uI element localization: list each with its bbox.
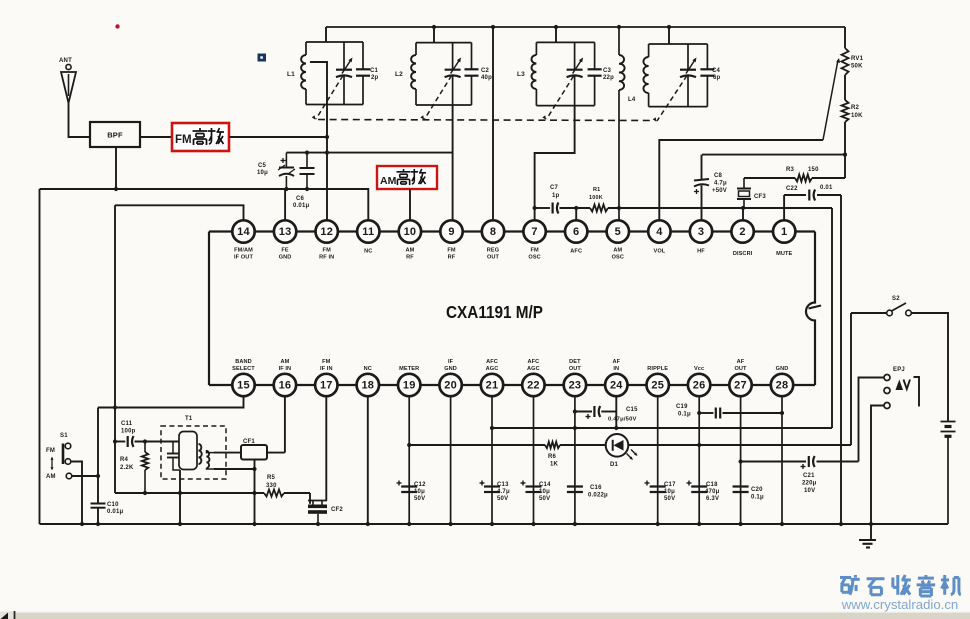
wire S2 right to battery [911,313,948,421]
capacitor C11 label [121,421,136,435]
filter CF2 [308,501,327,525]
svg-text:C20: C20 [751,487,763,493]
wire pin 22 vertical [533,397,535,525]
IC pin 5 (AM OSC) [607,220,629,260]
svg-text:C7: C7 [550,185,559,191]
svg-text:8: 8 [490,226,496,238]
svg-text:C5: C5 [258,163,267,169]
IC pin 1 (MUTE) [773,220,795,257]
capacitor C11 [128,436,134,447]
wire pin3/C8 rail [702,155,846,221]
LED D1 label [610,462,619,468]
svg-text:IF IN: IF IN [279,366,292,372]
svg-text:21: 21 [486,380,499,392]
capacitor C20 [733,487,749,493]
capacitor C22 [809,190,815,201]
svg-text:L2: L2 [395,71,403,78]
tuning gang dashed line [318,120,652,121]
resistor R1 [590,205,608,212]
svg-text:FM: FM [530,248,539,254]
wire antenna to BPF [69,103,91,137]
jack EPJ contacts [884,375,890,409]
svg-text:C6: C6 [296,196,305,202]
filter CF3 label [754,194,766,200]
capacitor C8 label [712,173,727,194]
capacitor C7 [553,203,559,214]
svg-text:GND: GND [279,255,292,261]
svg-text:NC: NC [364,249,372,255]
capacitor C8 [694,179,709,194]
wire top supply bus [326,26,845,28]
svg-text:6.3V: 6.3V [706,496,719,502]
svg-text:T1: T1 [185,416,193,422]
gang line diagonal C4 tank [653,76,687,122]
gang line diagonal L3 [542,76,573,120]
svg-text:22: 22 [527,380,540,392]
capacitor C2 label [481,68,492,81]
wire power rail to S2 [850,313,852,445]
wire left rail to pin 11 [40,189,369,221]
inductor L2 label [395,71,403,78]
svg-text:0.01: 0.01 [820,185,833,191]
potentiometer RV1 [842,27,849,100]
capacitor C6 label [293,196,309,209]
wire pin 17 to CF2 [325,397,327,501]
capacitor C20 label [751,487,764,501]
svg-text:15: 15 [237,380,250,392]
wire C5/C6 top rail [286,152,452,154]
svg-text:VOL: VOL [653,249,665,255]
svg-text:CF1: CF1 [243,439,255,445]
filter CF1 label [243,439,255,445]
svg-text:AF: AF [737,359,745,365]
svg-text:D1: D1 [610,462,619,468]
svg-text:6p: 6p [713,75,721,81]
svg-text:R2: R2 [851,105,860,111]
junction dot pin-12 line at C5/C6 rail [325,151,329,155]
resistor R4 [142,442,148,494]
horizontal scrollbar [0,611,970,619]
IC pin 3 (HF) [690,220,712,254]
wire C11 rail [115,441,179,443]
svg-text:0.1μ: 0.1μ [678,412,691,418]
svg-text:0.022μ: 0.022μ [588,493,608,499]
wire band select column / C10 branch [97,408,99,525]
junction dot power rail at pin 19 [407,443,411,447]
battery B1 [941,422,956,525]
junction dot FM amp wire [325,135,329,139]
svg-text:FM: FM [447,248,456,254]
IC pin 14 (FM/AM IF OUT) [232,220,254,260]
svg-text:150: 150 [808,167,819,173]
svg-text:S1: S1 [60,433,68,439]
capacitor C17 label [664,482,676,502]
svg-text:C16: C16 [590,485,602,491]
capacitor C10 label [107,502,123,515]
svg-text:AM: AM [380,175,397,187]
svg-text:9: 9 [448,226,454,238]
capacitor C21 [801,456,815,469]
resistor R2 label [851,105,863,119]
svg-text:MUTE: MUTE [776,251,792,257]
wire L2 varicap node to pin 9 [452,105,454,221]
IC pin 13 (FE GND) [274,220,296,260]
IC pin 22 (AFC AGC) [522,359,544,396]
svg-text:CF3: CF3 [754,194,766,200]
junction dot Vcc tap [697,443,701,447]
svg-text:10μ: 10μ [664,489,675,495]
svg-text:1p: 1p [552,193,560,199]
svg-text:4: 4 [656,226,663,238]
IC pin 12 (FM RF IN) [316,220,338,260]
capacitor C18 [687,481,708,493]
svg-text:6: 6 [573,226,579,238]
svg-text:C12: C12 [414,482,426,488]
wire FM OSC rail [535,208,832,428]
svg-text:AGC: AGC [486,366,499,372]
capacitor C5 [278,153,295,189]
svg-text:28: 28 [776,380,789,392]
capacitor C14 label [539,482,551,502]
svg-text:0.01μ: 0.01μ [293,203,309,209]
capacitor C13 [480,481,501,493]
IC pin 20 (IF GND) [439,359,461,396]
svg-text:27: 27 [734,380,747,392]
svg-text:OSC: OSC [612,255,624,261]
junction dot AM contact [96,474,100,478]
wire T1 bottom to bus [179,470,181,524]
svg-text:2: 2 [739,226,745,238]
tuned tank L1/C1 box [301,42,370,105]
wire pin 8 to top bus [492,27,494,221]
junction dots C19 rail [697,411,784,415]
svg-text:22p: 22p [603,75,614,81]
svg-text:FM: FM [323,248,332,254]
svg-text:2.2K: 2.2K [120,465,134,471]
junction dot C15 left [573,409,577,413]
junction dots lower rail [143,491,257,495]
filter CF1 [241,445,267,460]
svg-text:www.crystalradio.cn: www.crystalradio.cn [841,597,959,612]
svg-text:EPJ: EPJ [893,367,905,373]
inductor L1 label [287,71,295,78]
capacitor C13 label [497,482,510,502]
svg-text:OSC: OSC [528,255,540,261]
IC CXA1191 body outline [209,232,821,386]
svg-text:470μ: 470μ [705,489,720,495]
svg-text:IN: IN [613,366,619,372]
svg-text:10V: 10V [804,488,815,494]
wire pin 20 vertical [450,397,452,525]
IC pin 17 (FM IF IN) [315,359,337,396]
svg-text:13: 13 [279,226,292,238]
capacitor C18 label [705,482,720,502]
IC pin 4 (VOL) [648,220,670,254]
junction dots on pin13 rail [114,187,309,191]
capacitor C19 label [676,404,691,418]
wire ground bus [40,523,949,525]
svg-text:FM: FM [322,359,331,365]
IC pin 2 (DISCRI) [731,220,753,257]
svg-text:CF2: CF2 [331,507,343,513]
svg-text:330: 330 [266,483,277,489]
svg-text:Vcc: Vcc [694,366,704,372]
svg-text:10μ: 10μ [257,170,268,176]
svg-text:25: 25 [651,380,664,392]
wire bus drop to L2 tank [433,27,435,43]
IC pin 26 (Vcc) [688,366,710,396]
wire pin 6 stub [575,208,577,221]
svg-text:FM: FM [46,448,55,454]
svg-text:CXA1191 M/P: CXA1191 M/P [446,302,543,322]
capacitor C21 label [802,473,817,494]
resistor R6 label [548,454,559,468]
svg-text:RF IN: RF IN [319,255,334,261]
wire pin 13 stub [284,189,286,221]
capacitor C15 [586,406,601,419]
wire CF1 out to pin 16 [267,397,285,453]
resistor R2 [842,100,849,178]
svg-text:IF IN: IF IN [320,366,333,372]
capacitor C3 label [603,68,614,81]
wire C22 to ground bus [840,195,842,524]
svg-text:AF: AF [612,359,620,365]
junction dots on top bus [432,25,671,29]
wire C21 rail [741,461,859,463]
svg-text:C4: C4 [712,68,721,74]
transformer T1 primary [179,432,202,470]
jack EPJ symbol [896,377,920,407]
transformer T1 shield box [161,426,226,479]
svg-text:METER: METER [399,366,419,372]
svg-text:24: 24 [610,380,623,392]
svg-text:50V: 50V [497,496,508,502]
svg-text:RIPPLE: RIPPLE [647,366,668,372]
svg-text:R4: R4 [120,457,129,463]
tuned tank C4 box [643,44,714,107]
svg-text:IF OUT: IF OUT [234,255,253,261]
svg-text:16: 16 [279,380,292,392]
LED D1 [606,434,638,460]
red marker dot [115,24,119,28]
svg-text:S2: S2 [892,296,900,302]
wire C19 rail [699,412,782,414]
transformer T1 label [185,416,193,422]
svg-text:DISCRI: DISCRI [733,251,753,257]
wire pin 21 vertical [491,397,493,525]
junction dots C11 rail [113,439,147,443]
capacitor C16 [567,487,583,493]
svg-text:C2: C2 [481,68,490,74]
svg-text:17: 17 [320,380,333,392]
svg-text:L1: L1 [287,71,295,78]
gang line diagonal L2 [420,76,451,120]
wire T1 secondary to CF1 [214,452,241,454]
svg-text:+50V: +50V [712,188,727,194]
wire FM amp to pin12 node [229,136,327,138]
wire bottom-left lower rail [115,493,310,504]
svg-text:NC: NC [364,366,372,372]
wire pin 23 vertical [574,397,576,525]
svg-text:C13: C13 [497,482,509,488]
svg-text:10: 10 [404,226,417,238]
block AM RF amp (AM高放) [377,166,437,189]
svg-text:AFC: AFC [486,359,498,365]
IC pin 6 (AFC) [565,220,587,254]
svg-text:26: 26 [693,380,706,392]
svg-text:REG: REG [487,248,499,254]
wire S1 AM contact [72,475,98,477]
switch S2 [887,303,912,316]
wire detector rail y428 [492,427,832,429]
svg-text:C21: C21 [803,473,815,479]
capacitor C19 [716,408,720,419]
svg-text:RF: RF [448,255,456,261]
svg-text:L4: L4 [628,97,636,103]
svg-text:0.01μ: 0.01μ [107,509,123,515]
capacitor C12 [397,481,418,493]
IC pin 16 (AM IF IN) [274,359,296,396]
inductor L4 label [628,97,636,103]
IC pin 8 (REG OUT) [482,220,504,260]
IC CXA1191 part number [446,302,543,322]
IC pin 25 (RIPPLE) [647,366,669,396]
IC pin 9 (FM RF) [440,220,462,260]
jack EPJ label [893,367,905,373]
capacitor C15 label [608,407,638,423]
svg-text:C19: C19 [676,404,688,410]
svg-text:1K: 1K [550,462,559,468]
svg-text:20: 20 [444,380,457,392]
svg-text:11: 11 [362,226,374,238]
svg-text:DET: DET [569,359,581,365]
svg-text:OUT: OUT [734,366,747,372]
svg-text:18: 18 [361,380,374,392]
svg-text:50V: 50V [664,496,675,502]
svg-text:AFC: AFC [528,359,540,365]
svg-text:C8: C8 [714,173,723,179]
wire bus drop to 4th tank [668,27,670,44]
svg-text:50V: 50V [539,496,550,502]
svg-text:GND: GND [444,366,457,372]
IC pin 23 (DET OUT) [564,359,586,396]
svg-text:10μ: 10μ [414,489,425,495]
resistor R3 rail [744,175,845,182]
resistor R1 label [589,187,603,201]
svg-text:7: 7 [531,226,537,238]
wire BPF bottom drop [115,147,117,189]
resistor R6 [545,442,560,448]
tuned tank L3/C3 box [532,42,602,105]
svg-text:FM: FM [175,134,192,146]
wire pin 15 to S1 net [98,397,244,408]
svg-text:1: 1 [781,226,787,238]
IC pin 24 (AF IN) [605,359,627,396]
junction dot CF1 ground leg [252,467,256,471]
wire pin 14 to left column [115,205,244,220]
capacitor C7 label [550,185,560,199]
watermark crystalradio logo [840,575,961,596]
wire pin 19 vertical [408,397,410,525]
junction dot x115 on band-select rail [113,405,117,409]
svg-text:2p: 2p [371,75,379,81]
svg-text:AM: AM [613,248,622,254]
wire C15 rail [575,397,616,429]
junction dots on ground bus [80,522,873,526]
junction dot detector rail at pin 21 [490,426,494,430]
resistor R5 label [266,475,277,489]
svg-text:R3: R3 [786,167,795,173]
wire pin 2 stub [742,208,744,221]
svg-text:FE: FE [281,248,289,254]
svg-text:R6: R6 [548,454,557,460]
svg-text:R1: R1 [593,187,600,193]
svg-text:GND: GND [776,366,789,372]
svg-text:100K: 100K [589,195,603,201]
wire EPJ sleeve to ground [871,406,884,541]
IC pin 21 (AFC AGC) [481,359,503,396]
IC pin 7 (FM OSC) [523,220,545,260]
capacitor C5 label [257,163,268,176]
svg-text:AGC: AGC [527,366,540,372]
switch S1 FM/AM labels [46,448,56,480]
filter CF2 label [331,507,343,513]
svg-text:ANT: ANT [59,58,72,64]
IC pin 28 (GND) [771,366,793,396]
capacitor C17 [645,481,666,493]
svg-text:0.47μ/50V: 0.47μ/50V [608,417,637,423]
svg-text:4.7μ: 4.7μ [497,489,510,495]
capacitor C1 label [370,68,379,81]
svg-text:C3: C3 [603,68,612,74]
wire L3 varicap node to pin 7 [535,106,575,221]
inductor L4 [619,27,625,221]
wire bus drop to L1 tank [325,27,327,42]
svg-text:BPF: BPF [107,131,123,140]
svg-text:BAND: BAND [235,359,252,365]
gang line diagonal L1 [312,76,343,120]
capacitor C6 [300,153,315,189]
svg-text:AM: AM [46,474,56,480]
wire S2 left [851,312,887,314]
svg-text:AFC: AFC [570,249,582,255]
potentiometer RV1 label [851,56,864,70]
svg-text:50K: 50K [851,64,863,70]
ground symbol [859,540,876,548]
capacitor C10 [91,504,106,508]
filter BPF [90,122,140,147]
wire RV1 wiper [823,58,840,140]
resistor R5 [264,490,284,497]
svg-text:40p: 40p [481,75,492,81]
svg-text:IF: IF [448,359,454,365]
svg-text:C11: C11 [121,421,133,427]
svg-text:SELECT: SELECT [232,366,255,372]
block FM RF amp (FM高放) [172,123,229,151]
svg-text:50V: 50V [414,496,425,502]
svg-text:12: 12 [320,226,333,238]
svg-text:HF: HF [697,249,705,255]
IC pin 10 (AM RF) [399,220,421,260]
IC pin 27 (AF OUT) [729,359,751,396]
svg-text:R5: R5 [267,475,276,481]
svg-text:C14: C14 [539,482,551,488]
junction dots detector rail [573,426,619,430]
svg-text:5: 5 [615,226,621,238]
wire left column x115 [114,205,116,493]
junction dots on FM OSC rail [533,206,746,210]
svg-text:C18: C18 [706,482,718,488]
